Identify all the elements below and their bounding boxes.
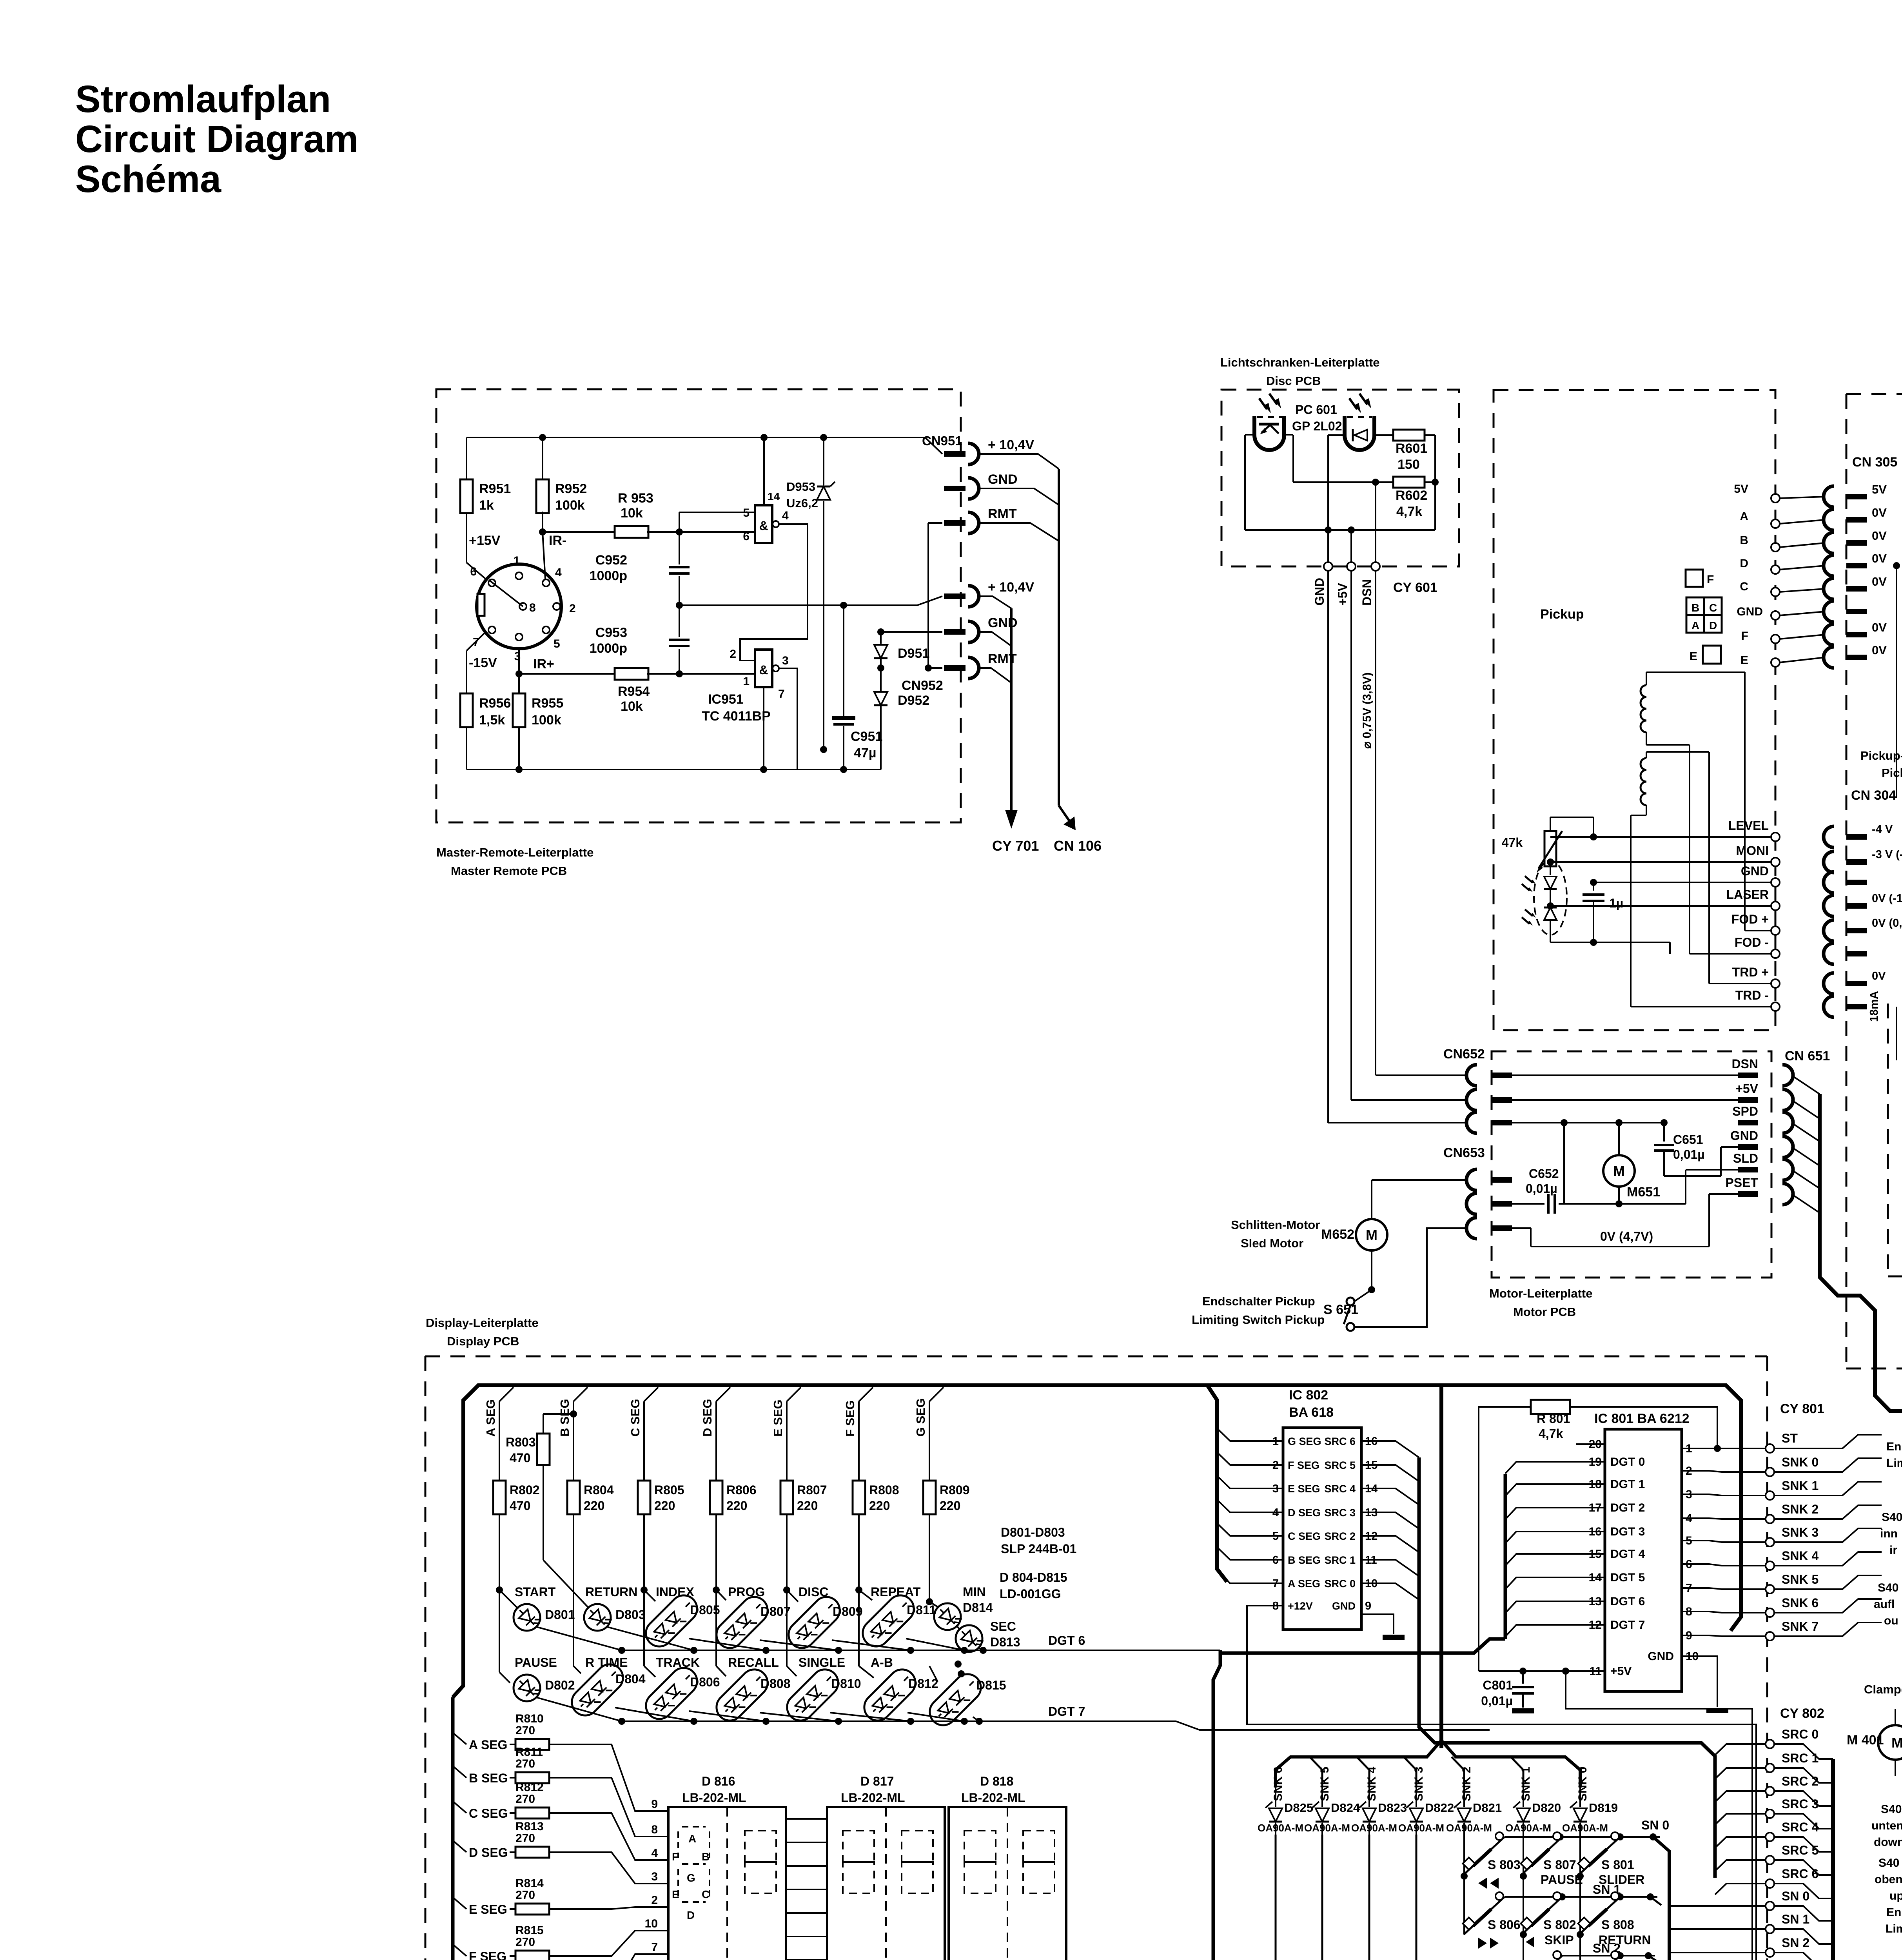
svg-text:SNK 5: SNK 5 [1318, 1767, 1331, 1801]
svg-text:S 808: S 808 [1601, 1918, 1634, 1932]
svg-text:R809: R809 [940, 1483, 970, 1497]
arrow CN106 [1059, 806, 1071, 823]
svg-text:SRC 0: SRC 0 [1782, 1727, 1819, 1741]
bus slider trunk [1833, 1759, 1902, 1960]
ground IC802 [1383, 1635, 1405, 1640]
svg-text:PAUSE: PAUSE [1541, 1873, 1583, 1887]
svg-text:R 801: R 801 [1537, 1412, 1570, 1426]
svg-text:SNK 5: SNK 5 [1782, 1572, 1819, 1586]
svg-text:Display-Leiterplatte: Display-Leiterplatte [426, 1316, 539, 1330]
svg-text:+ 10,4V: + 10,4V [988, 437, 1034, 452]
svg-text:SRC 1: SRC 1 [1324, 1554, 1356, 1566]
svg-text:+12V: +12V [1288, 1600, 1313, 1612]
nodes SNK0-7 [1766, 1468, 1774, 1476]
svg-text:0V: 0V [1872, 575, 1887, 588]
svg-text:3: 3 [782, 654, 789, 667]
svg-text:E SEG: E SEG [1288, 1483, 1320, 1495]
svg-text:SNK 2: SNK 2 [1782, 1502, 1819, 1516]
svg-text:Motor PCB: Motor PCB [1513, 1305, 1576, 1319]
svg-text:R815: R815 [515, 1924, 544, 1937]
bus seg bundle to IC802 [1207, 1385, 1227, 1582]
svg-text:D801: D801 [545, 1608, 575, 1622]
wire R803 lower [527, 1486, 543, 1602]
display D816 box [668, 1807, 786, 1960]
svg-text:D953: D953 [786, 480, 815, 494]
svg-text:0V (-1,8: 0V (-1,8 [1872, 892, 1902, 905]
laser diode unit dashed oval [1534, 860, 1567, 935]
svg-text:DGT 4: DGT 4 [1610, 1548, 1645, 1561]
svg-text:C651: C651 [1673, 1132, 1703, 1147]
resistor R956 [460, 693, 473, 727]
svg-text:&: & [759, 519, 768, 533]
svg-text:LASER: LASER [1726, 887, 1769, 902]
svg-text:SRC 6: SRC 6 [1324, 1436, 1356, 1447]
bus SNK bevels [1310, 1757, 1322, 1788]
opto LED PC601 housing [1345, 416, 1374, 450]
light arrows laser [1525, 876, 1533, 883]
svg-text:D806: D806 [690, 1675, 720, 1689]
svg-text:DGT 3: DGT 3 [1610, 1525, 1645, 1538]
DIN key rect [477, 594, 485, 616]
svg-text:GND: GND [1737, 605, 1763, 618]
PCB box servo edge [1846, 394, 1848, 1368]
resistor row R802-R809 [493, 1481, 506, 1514]
svg-text:C SEG: C SEG [628, 1399, 642, 1437]
wire DGT6 line [622, 1650, 1220, 1651]
svg-text:Sled Motor: Sled Motor [1241, 1236, 1303, 1250]
svg-text:F: F [1741, 630, 1748, 642]
svg-text:BA 618: BA 618 [1289, 1405, 1334, 1420]
svg-text:TRACK: TRACK [656, 1655, 700, 1670]
light arrows LED [1349, 398, 1357, 409]
svg-text:RECALL: RECALL [728, 1655, 779, 1670]
wire GND net row [881, 631, 942, 633]
svg-text:9: 9 [1365, 1600, 1371, 1612]
svg-text:B: B [702, 1851, 710, 1863]
svg-text:G SEG: G SEG [914, 1398, 927, 1437]
nand gate IC951a [755, 505, 772, 543]
wire IC801 pin10 GND [1682, 1656, 1717, 1707]
svg-text:F SEG: F SEG [843, 1400, 857, 1437]
svg-text:M652: M652 [1321, 1227, 1354, 1242]
LED D814 MIN [926, 1598, 933, 1605]
node IR+ [518, 649, 520, 674]
svg-text:IR+: IR+ [533, 657, 554, 671]
svg-text:SINGLE: SINGLE [799, 1655, 845, 1670]
svg-text:SNK 4: SNK 4 [1365, 1766, 1378, 1801]
svg-text:SNK 2: SNK 2 [1460, 1767, 1473, 1801]
svg-text:0V: 0V [1872, 529, 1887, 543]
resistor R602 [1393, 477, 1425, 488]
svg-text:C: C [702, 1888, 710, 1900]
bus SNK split [1276, 1740, 1441, 1788]
svg-text:DGT 5: DGT 5 [1610, 1571, 1645, 1584]
svg-text:SPD: SPD [1732, 1104, 1758, 1118]
svg-text:F: F [1707, 573, 1714, 586]
svg-text:B SEG: B SEG [469, 1771, 508, 1785]
svg-text:CN653: CN653 [1443, 1145, 1485, 1160]
svg-text:CY 701: CY 701 [992, 838, 1039, 854]
key S802 skip back [1523, 1876, 1524, 1935]
svg-text:SN 1: SN 1 [1782, 1912, 1809, 1926]
svg-text:CN 305: CN 305 [1852, 455, 1897, 470]
svg-text:M651: M651 [1627, 1185, 1660, 1200]
svg-text:1: 1 [743, 675, 750, 688]
wire DGT7 jog [1176, 1721, 1490, 1730]
svg-text:R808: R808 [869, 1483, 899, 1497]
wire FOD- row [1670, 953, 1690, 954]
svg-text:1000p: 1000p [590, 641, 627, 656]
wires disc verticals to CN652 [1328, 1122, 1466, 1123]
svg-text:2: 2 [569, 602, 576, 615]
svg-text:INDEX: INDEX [656, 1585, 694, 1599]
wires pickup to CN305 [1780, 497, 1825, 498]
LED D812 A-B [858, 1602, 860, 1666]
wire mid to CN952 +10.4V [803, 596, 942, 605]
wire IC801 pin1 to ST [1682, 1448, 1766, 1449]
svg-text:SN 2: SN 2 [1782, 1936, 1809, 1950]
svg-text:CN 651: CN 651 [1785, 1049, 1830, 1063]
svg-text:CN 304: CN 304 [1851, 788, 1896, 803]
svg-text:E: E [1690, 650, 1697, 663]
bus SRC trunk [1419, 1457, 1715, 1878]
wires SRC fan to CY802 [1715, 1744, 1766, 1755]
svg-text:SLP 244B-01: SLP 244B-01 [1001, 1542, 1076, 1556]
svg-text:E SEG: E SEG [469, 1902, 507, 1916]
svg-text:DGT 0: DGT 0 [1610, 1455, 1645, 1468]
svg-text:0V: 0V [1872, 552, 1887, 565]
svg-text:SNK 6: SNK 6 [1782, 1596, 1819, 1610]
svg-text:4,7k: 4,7k [1396, 504, 1422, 519]
PCB box Pickup [1494, 390, 1775, 1030]
wire bottom rail [466, 769, 760, 770]
svg-text:470: 470 [510, 1451, 530, 1465]
key S804 START [1579, 1935, 1581, 1960]
connector CN653 [1466, 1169, 1477, 1191]
PCB box Master-Remote-Leiterplatte [436, 389, 961, 822]
LED D810 SINGLE [786, 1602, 788, 1666]
svg-text:A: A [1691, 619, 1699, 632]
svg-text:R952: R952 [555, 481, 587, 496]
opto phototransistor PC601 housing [1254, 416, 1284, 450]
wire top rail + [466, 437, 824, 438]
svg-text:PROG: PROG [728, 1585, 765, 1599]
light arrows PC601 [1259, 398, 1267, 409]
svg-text:C: C [1709, 602, 1717, 614]
svg-text:S 801: S 801 [1601, 1858, 1634, 1872]
svg-text:D812: D812 [908, 1677, 938, 1691]
LED D808 RECALL [715, 1602, 717, 1666]
node IR- [539, 528, 546, 535]
svg-text:IC 802: IC 802 [1289, 1388, 1328, 1403]
svg-text:E: E [1740, 654, 1748, 667]
svg-text:5V: 5V [1872, 483, 1887, 496]
wire MONI [1550, 862, 1551, 866]
svg-text:D SEG: D SEG [701, 1399, 714, 1437]
capacitor C652 [1512, 1203, 1544, 1205]
capacitor C952 [679, 532, 680, 564]
svg-text:CN652: CN652 [1443, 1047, 1485, 1062]
wire GND down [1327, 571, 1329, 1123]
wire SN1 line [1505, 1896, 1657, 1898]
svg-text:+15V: +15V [469, 533, 501, 548]
svg-text:DISC: DISC [799, 1585, 828, 1599]
svg-text:S 803: S 803 [1488, 1858, 1521, 1872]
wires seg bundle to IC802 pins [1217, 1428, 1283, 1441]
svg-text:C652: C652 [1529, 1167, 1559, 1181]
wires motor pcb rows [1512, 1074, 1738, 1076]
LED D807 PROG [713, 1586, 720, 1593]
svg-text:D825: D825 [1284, 1801, 1313, 1815]
svg-text:C801: C801 [1483, 1678, 1513, 1692]
svg-text:D808: D808 [760, 1677, 791, 1691]
svg-text:270: 270 [515, 1936, 535, 1949]
svg-text:IC 801 BA 6212: IC 801 BA 6212 [1594, 1411, 1690, 1426]
wire SN0 line [1505, 1836, 1660, 1838]
svg-text:DGT 6: DGT 6 [1610, 1595, 1645, 1608]
svg-text:220: 220 [869, 1499, 890, 1513]
svg-text:18mA: 18mA [1868, 991, 1880, 1022]
svg-text:D: D [1709, 619, 1717, 632]
node ST [1766, 1444, 1774, 1453]
svg-text:PC 601: PC 601 [1295, 403, 1337, 417]
wire master bottom rail right [760, 769, 881, 770]
svg-text:S 807: S 807 [1543, 1858, 1576, 1872]
svg-text:0,01µ: 0,01µ [1481, 1694, 1513, 1708]
wire power rail pin7 [763, 687, 764, 769]
key S805 skip fwd [1523, 1935, 1524, 1960]
svg-text:CY 801: CY 801 [1780, 1401, 1824, 1416]
wire IR- to pin4 [543, 532, 545, 579]
svg-text:CN 106: CN 106 [1054, 838, 1102, 854]
connector CN304 rows [1824, 826, 1834, 848]
wires S651 [1354, 1290, 1372, 1301]
wire DGT7 line [622, 1720, 1176, 1722]
wire laser bottom [1550, 942, 1593, 943]
svg-text:R813: R813 [515, 1820, 544, 1833]
svg-text:SKIP: SKIP [1544, 1933, 1574, 1947]
LED D813 SEC [950, 1620, 988, 1657]
wire C95x mid to right [679, 604, 803, 606]
bus left seg rail [451, 1697, 455, 1960]
resistor R955 [518, 674, 520, 694]
svg-text:-4 V: -4 V [1872, 823, 1893, 836]
svg-text:oben: oben [1875, 1873, 1902, 1886]
svg-text:DSN: DSN [1360, 579, 1374, 606]
svg-text:0V: 0V [1872, 970, 1886, 982]
svg-text:D824: D824 [1331, 1801, 1360, 1815]
svg-text:DGT 7: DGT 7 [1048, 1704, 1085, 1719]
CN304 connector circles [1771, 833, 1780, 841]
wire CN951 bus to CN106 [979, 454, 1059, 469]
svg-text:270: 270 [515, 1724, 535, 1737]
wire left rail [466, 437, 467, 481]
svg-text:6: 6 [743, 530, 750, 543]
svg-text:D 804-D815: D 804-D815 [1000, 1570, 1067, 1584]
svg-text:IR-: IR- [549, 533, 566, 548]
svg-text:Motor-Leiterplatte: Motor-Leiterplatte [1489, 1287, 1593, 1300]
wire gate2 output [779, 668, 797, 769]
svg-text:R812: R812 [515, 1781, 544, 1794]
svg-text:1µ: 1µ [1609, 896, 1623, 910]
key S801 SLIDER [1577, 1873, 1584, 1880]
svg-text:OA90A-M: OA90A-M [1304, 1822, 1350, 1834]
svg-text:TRD -: TRD - [1735, 988, 1769, 1002]
svg-text:RETURN: RETURN [585, 1585, 637, 1599]
wires SN to CY802 [1669, 1905, 1766, 1907]
svg-text:D819: D819 [1589, 1801, 1618, 1815]
svg-text:CY 802: CY 802 [1780, 1706, 1824, 1721]
svg-text:aufl: aufl [1874, 1598, 1895, 1611]
svg-text:GND: GND [1741, 864, 1769, 878]
svg-text:0V (0,4: 0V (0,4 [1872, 917, 1902, 929]
PCB box Motor-Leiterplatte [1492, 1051, 1771, 1278]
wire top rail to CN951 [824, 437, 942, 454]
DIN connector socket [477, 564, 561, 649]
svg-text:C953: C953 [595, 625, 627, 640]
svg-text:R804: R804 [584, 1483, 614, 1497]
svg-text:START: START [515, 1585, 556, 1599]
capacitor 1u [1583, 893, 1604, 896]
svg-text:R811: R811 [515, 1746, 543, 1759]
capacitor C651 [1654, 1144, 1674, 1146]
wires CY801 snk diagonal hatches [1682, 1471, 1766, 1472]
wire power rail pin14 [763, 437, 765, 505]
svg-text:D 817: D 817 [860, 1774, 894, 1788]
wire CN952 bus to CY701 [979, 596, 1011, 608]
svg-text:D815: D815 [976, 1678, 1006, 1692]
wire GND row pickup [1593, 882, 1771, 883]
svg-text:En: En [1886, 1440, 1901, 1453]
photodetector quad E [1703, 646, 1721, 664]
svg-text:R807: R807 [797, 1483, 827, 1497]
svg-text:5V: 5V [1734, 483, 1748, 495]
diode D951 [874, 645, 887, 658]
svg-text:GP 2L02: GP 2L02 [1292, 419, 1342, 433]
svg-text:F: F [672, 1851, 679, 1863]
key S806 ff [1463, 1876, 1465, 1935]
svg-text:2: 2 [651, 1894, 658, 1907]
svg-text:Schlitten-Motor: Schlitten-Motor [1231, 1218, 1320, 1232]
arrow CY701 [1010, 608, 1013, 813]
tracking coil [1641, 758, 1646, 805]
LED D811 REPEAT [855, 1586, 862, 1593]
svg-text:4: 4 [555, 566, 562, 579]
wire coil to FOD+ [1744, 672, 1746, 931]
PCB box Disc PCB [1221, 390, 1459, 566]
svg-text:4,7k: 4,7k [1539, 1426, 1563, 1441]
svg-text:D822: D822 [1425, 1801, 1454, 1815]
svg-text:SNK 3: SNK 3 [1782, 1525, 1819, 1539]
svg-text:A: A [1740, 510, 1748, 523]
wire IC802 pin8 +12V [1247, 1606, 1766, 1960]
svg-text:7: 7 [778, 688, 785, 701]
svg-text:F SEG: F SEG [469, 1949, 506, 1960]
svg-text:DGT 7: DGT 7 [1610, 1619, 1645, 1632]
svg-text:R814: R814 [515, 1877, 544, 1890]
svg-text:inn: inn [1880, 1527, 1898, 1540]
svg-text:Lichtschranken-Leiterplatte: Lichtschranken-Leiterplatte [1220, 356, 1380, 369]
wire gate1 pin5 feed [679, 512, 755, 513]
svg-text:R 953: R 953 [618, 491, 653, 506]
svg-text:OA90A-M: OA90A-M [1258, 1822, 1303, 1834]
svg-text:ou: ou [1884, 1614, 1898, 1627]
svg-text:GND: GND [988, 472, 1018, 487]
svg-text:SNK 7: SNK 7 [1782, 1619, 1819, 1633]
key S808 RETURN [1579, 1876, 1581, 1935]
svg-text:0V: 0V [1872, 506, 1887, 519]
svg-text:D801-D803: D801-D803 [1001, 1525, 1065, 1539]
display D816 segments [678, 1827, 710, 1902]
svg-text:REPEAT: REPEAT [871, 1585, 921, 1599]
svg-text:SNK 4: SNK 4 [1782, 1549, 1819, 1563]
svg-text:GND: GND [988, 615, 1018, 630]
svg-text:1: 1 [514, 554, 520, 567]
svg-text:0V: 0V [1872, 621, 1887, 634]
svg-text:Lim: Lim [1886, 1922, 1902, 1935]
svg-text:R805: R805 [654, 1483, 684, 1497]
svg-text:D823: D823 [1378, 1801, 1407, 1815]
svg-text:47µ: 47µ [854, 746, 876, 760]
wires D816-D817 link [786, 1818, 827, 1820]
wires to CN304 connectors [1745, 930, 1771, 931]
svg-text:4: 4 [651, 1847, 658, 1860]
motor M651 [1603, 1155, 1635, 1187]
resistor R954 [615, 668, 648, 680]
svg-text:+5V: +5V [1610, 1665, 1632, 1678]
svg-text:A SEG: A SEG [469, 1738, 507, 1752]
svg-text:FOD +: FOD + [1731, 912, 1769, 926]
svg-text:270: 270 [515, 1889, 535, 1902]
wires SEG verticals [499, 1387, 514, 1401]
svg-text:Endschalter Pickup: Endschalter Pickup [1202, 1294, 1315, 1308]
svg-text:S40: S40 [1878, 1857, 1899, 1869]
svg-text:R806: R806 [726, 1483, 757, 1497]
svg-text:R TIME: R TIME [585, 1655, 628, 1670]
svg-text:S 806: S 806 [1488, 1918, 1521, 1932]
wires CY802 right to slider bus [1774, 1744, 1833, 1759]
svg-text:150: 150 [1397, 457, 1420, 472]
svg-text:270: 270 [515, 1793, 535, 1806]
svg-text:100k: 100k [555, 498, 585, 513]
wire IC801 pin11 +5V [1479, 1670, 1605, 1672]
svg-text:1,5k: 1,5k [479, 713, 505, 728]
svg-text:GND: GND [1730, 1129, 1758, 1143]
svg-text:E: E [672, 1888, 679, 1900]
resistor R951 [460, 479, 473, 513]
svg-text:SNK 1: SNK 1 [1519, 1767, 1532, 1801]
diode D952 [880, 668, 882, 691]
svg-text:+5V: +5V [1735, 1082, 1758, 1096]
svg-text:Circuit Diagram: Circuit Diagram [75, 118, 358, 160]
svg-text:D 818: D 818 [980, 1774, 1013, 1788]
svg-text:+5V: +5V [1336, 583, 1350, 606]
svg-text:D: D [1740, 557, 1748, 570]
svg-text:C951: C951 [851, 729, 882, 744]
svg-text:D803: D803 [615, 1608, 646, 1622]
svg-text:100k: 100k [532, 713, 561, 728]
svg-text:CY 601: CY 601 [1393, 580, 1437, 595]
svg-text:Display PCB: Display PCB [447, 1334, 519, 1348]
svg-text:SRC 4: SRC 4 [1324, 1483, 1356, 1495]
svg-text:Schéma: Schéma [75, 158, 221, 200]
svg-text:S40: S40 [1878, 1581, 1898, 1594]
svg-text:R954: R954 [618, 684, 650, 699]
svg-text:220: 220 [940, 1499, 960, 1513]
svg-text:C952: C952 [595, 553, 627, 568]
svg-text:GND: GND [1312, 578, 1327, 606]
potentiometer 47k [1544, 831, 1556, 866]
